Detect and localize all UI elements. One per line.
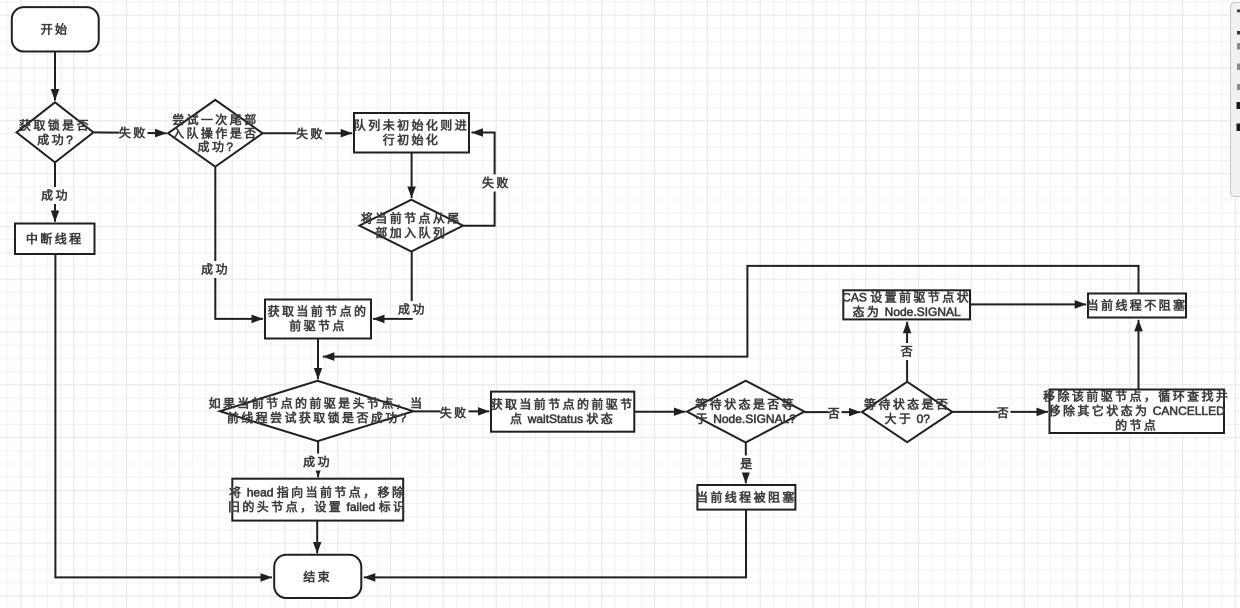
svg-text:前线程尝试获取锁是否成功?: 前线程尝试获取锁是否成功? xyxy=(227,410,407,425)
wire E10 R2 to D4 xyxy=(317,339,319,380)
wire E6 init box to D3 xyxy=(411,153,413,198)
process R2 获取当前节点的前驱节点 xyxy=(265,300,371,339)
svg-text:将 head 指向当前节点，移除: 将 head 指向当前节点，移除 xyxy=(229,484,406,499)
svg-text:获取当前节点的: 获取当前节点的 xyxy=(268,304,369,319)
wire E8 D2 success to R2 xyxy=(215,167,263,319)
svg-text:失败: 失败 xyxy=(296,126,325,141)
svg-text:中断线程: 中断线程 xyxy=(26,231,84,246)
svg-text:旧的头节点，设置 failed 标识: 旧的头节点，设置 failed 标识 xyxy=(228,499,407,514)
svg-text:获取锁是否: 获取锁是否 xyxy=(19,117,91,132)
node end 结束 xyxy=(274,555,361,598)
wire E4 interrupt box to end node xyxy=(55,254,272,577)
svg-text:态为 Node.SIGNAL: 态为 Node.SIGNAL xyxy=(853,305,962,319)
wire E19 CAS box to R7 xyxy=(970,303,1086,305)
svg-text:成功?: 成功? xyxy=(198,140,234,154)
svg-text:行初始化: 行初始化 xyxy=(383,133,441,147)
svg-text:否: 否 xyxy=(828,406,842,420)
wire E7 D3 fail loop back to init box xyxy=(463,133,494,226)
wire E11 return loop from R7 top back to E10 xyxy=(323,266,1139,357)
svg-text:失败: 失败 xyxy=(482,175,511,190)
wire E18 R8 up to R7 xyxy=(1138,320,1140,389)
svg-text:是: 是 xyxy=(740,457,754,471)
wire E5 D2 to init box xyxy=(263,132,352,134)
label 成功 on E8 xyxy=(201,261,230,278)
decision D4 如果当前节点的前驱是头节点当前线程尝试获取锁是否成功 xyxy=(209,381,425,441)
decision D3 将当前节点从尾部加入队列 xyxy=(360,200,464,252)
svg-text:成功?: 成功? xyxy=(37,133,73,147)
label 失败 on E2 xyxy=(119,125,148,142)
svg-text:入队操作是否: 入队操作是否 xyxy=(172,125,258,140)
svg-text:将当前节点从尾: 将当前节点从尾 xyxy=(361,210,462,225)
wire E16 D6 no up to CAS box xyxy=(906,322,908,382)
wire E15 D5 no to D6 xyxy=(805,411,861,413)
svg-text:成功: 成功 xyxy=(41,189,70,203)
wire E17 D6 no to R8 xyxy=(953,411,1048,413)
wire E1 start to D1 xyxy=(54,51,56,101)
wire E21 R3 to end node xyxy=(316,521,318,554)
label 成功 on E22 xyxy=(303,454,332,471)
decision D1 获取锁是否成功 xyxy=(17,102,94,162)
process R7 当前线程不阻塞 xyxy=(1087,294,1188,318)
label 是 on E14 xyxy=(740,456,754,473)
svg-text:如果当前节点的前驱是头节点，当: 如果当前节点的前驱是头节点，当 xyxy=(209,396,425,411)
svg-text:尝试一次尾部: 尝试一次尾部 xyxy=(172,112,258,127)
label 否 on E15 xyxy=(828,405,842,422)
wire E20 R5 down to end node xyxy=(364,510,746,578)
svg-text:当前线程被阻塞: 当前线程被阻塞 xyxy=(696,489,797,504)
label 失败 on E12 xyxy=(440,405,469,422)
wire E3 D1 to interrupt box xyxy=(54,163,56,222)
wire E13 R4 to D5 xyxy=(635,411,686,413)
wire E22 D4 success to R3 xyxy=(317,442,319,478)
svg-text:当前线程不阻塞: 当前线程不阻塞 xyxy=(1087,298,1188,313)
label 失败 on E7 loop xyxy=(482,175,511,192)
svg-text:成功: 成功 xyxy=(201,263,230,277)
process R6 CAS 设置前驱节点状态为 Node.SIGNAL xyxy=(842,290,971,320)
svg-text:移除其它状态为 CANCELLED: 移除其它状态为 CANCELLED xyxy=(1049,403,1226,418)
svg-text:CAS 设置前驱节点状: CAS 设置前驱节点状 xyxy=(842,290,971,305)
svg-text:成功: 成功 xyxy=(398,303,427,317)
svg-text:于 Node.SIGNAL?: 于 Node.SIGNAL? xyxy=(695,412,796,426)
side toolbar panel cut off at right edge xyxy=(1231,3,1240,197)
svg-text:失败: 失败 xyxy=(119,125,148,140)
process R8 移除该前驱节点循环查找并移除其它状态为 CANCELLED 的节点 xyxy=(1043,389,1230,433)
process R4 获取当前节点的前驱节点 waitStatus 状态 xyxy=(491,392,635,432)
process R1 队列未初始化则进行初始化 xyxy=(354,113,469,153)
svg-text:的节点: 的节点 xyxy=(1115,418,1158,433)
wire E14 D5 yes to R5 xyxy=(745,443,747,484)
decision D2 尝试一次尾部入队操作是否成功 xyxy=(168,100,263,167)
svg-text:获取当前节点的前驱节: 获取当前节点的前驱节 xyxy=(491,396,635,411)
process R5 当前线程被阻塞 xyxy=(696,485,797,510)
svg-text:成功: 成功 xyxy=(303,455,332,469)
label 失败 on E5 xyxy=(296,125,325,142)
decision D6 等待状态是否大于 0 xyxy=(862,382,952,442)
svg-text:大于 0?: 大于 0? xyxy=(884,412,930,426)
wire E2 D1 to D2 xyxy=(94,131,167,134)
svg-text:失败: 失败 xyxy=(440,405,469,420)
svg-text:队列未初始化则进: 队列未初始化则进 xyxy=(354,118,469,133)
svg-text:部加入队列: 部加入队列 xyxy=(375,225,447,240)
process R3 将 head 指向当前节点移除旧的头节点设置 failed 标识 xyxy=(228,479,407,521)
process R0 中断线程 xyxy=(15,224,95,255)
decision D5 等待状态是否等于 Node.SIGNAL xyxy=(687,381,804,443)
svg-text:否: 否 xyxy=(901,345,915,359)
label 成功 on E3 xyxy=(41,187,70,204)
svg-text:开始: 开始 xyxy=(41,23,70,37)
svg-text:点 waitStatus 状态: 点 waitStatus 状态 xyxy=(510,412,615,426)
wire E9 D3 success to R2 xyxy=(373,252,412,319)
label 成功 on E9 xyxy=(398,301,427,318)
svg-text:等待状态是否等: 等待状态是否等 xyxy=(695,397,796,411)
svg-text:等待状态是否: 等待状态是否 xyxy=(864,398,950,412)
wire E12 D4 fail to R4 xyxy=(414,410,490,412)
svg-text:否: 否 xyxy=(997,406,1011,420)
node start 开始 xyxy=(12,7,99,51)
svg-text:移除该前驱节点，循环查找并: 移除该前驱节点，循环查找并 xyxy=(1043,389,1230,404)
svg-text:结束: 结束 xyxy=(303,570,332,584)
label 否 on E17 xyxy=(997,405,1011,422)
svg-text:前驱节点: 前驱节点 xyxy=(289,318,347,333)
label 否 on E16 xyxy=(901,343,915,360)
